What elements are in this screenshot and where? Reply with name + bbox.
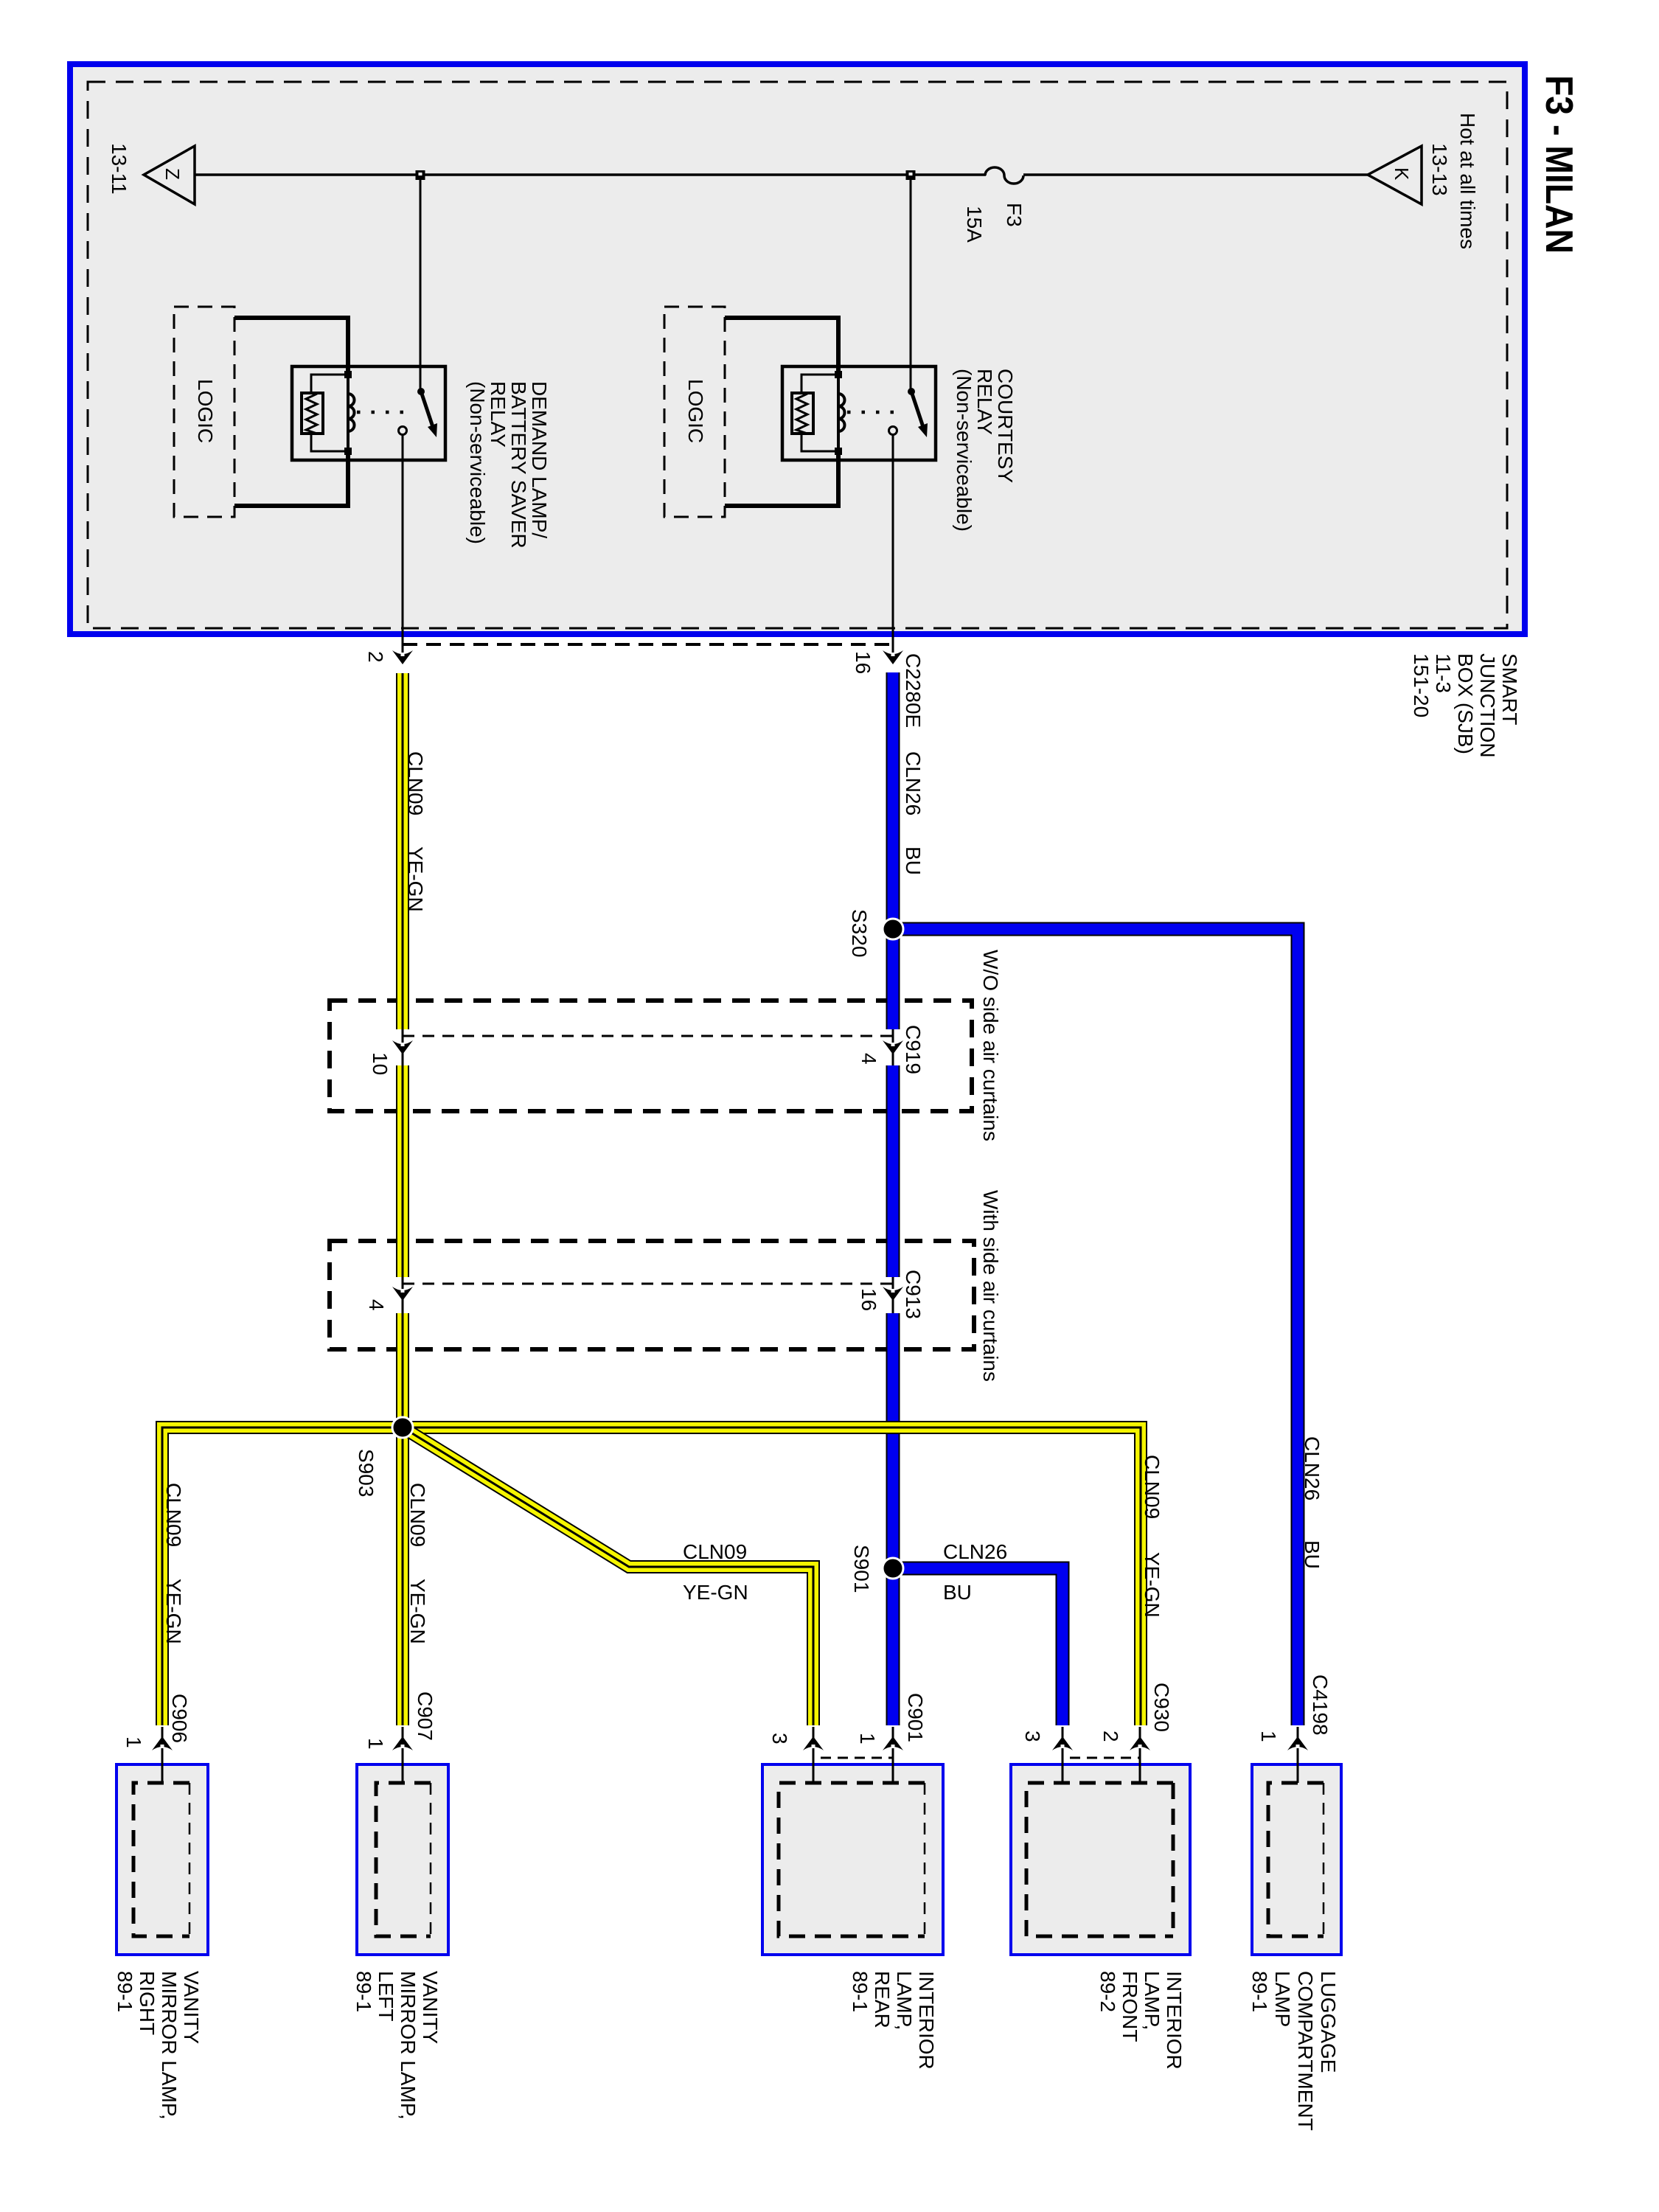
svg-text:151-20: 151-20 <box>1410 653 1433 717</box>
svg-text:1: 1 <box>364 1738 387 1750</box>
svg-text:CLN09: CLN09 <box>683 1540 747 1563</box>
svg-text:LOGIC: LOGIC <box>194 379 217 443</box>
svg-text:F3 - MILAN: F3 - MILAN <box>1537 75 1580 254</box>
svg-text:1: 1 <box>1257 1731 1280 1742</box>
svg-text:RELAY: RELAY <box>487 381 509 448</box>
svg-text:FRONT: FRONT <box>1119 1971 1141 2042</box>
svg-text:10: 10 <box>369 1052 392 1075</box>
svg-text:11-3: 11-3 <box>1432 653 1455 693</box>
svg-text:LOGIC: LOGIC <box>684 379 707 443</box>
svg-text:C919: C919 <box>902 1025 925 1074</box>
svg-text:C4198: C4198 <box>1309 1674 1332 1736</box>
svg-text:(Non-serviceable): (Non-serviceable) <box>953 369 975 532</box>
svg-text:3: 3 <box>1021 1731 1044 1742</box>
svg-text:LEFT: LEFT <box>375 1971 397 2021</box>
svg-text:16: 16 <box>852 651 874 674</box>
svg-text:VANITY: VANITY <box>419 1971 442 2044</box>
svg-text:4: 4 <box>858 1053 880 1065</box>
svg-text:4: 4 <box>365 1299 388 1311</box>
svg-text:C906: C906 <box>168 1694 191 1743</box>
svg-text:YE-GN: YE-GN <box>406 1579 429 1644</box>
svg-text:13-13: 13-13 <box>1428 143 1451 196</box>
svg-text:C930: C930 <box>1150 1683 1173 1732</box>
svg-text:SMART: SMART <box>1498 653 1521 726</box>
svg-text:REAR: REAR <box>871 1971 894 2028</box>
svg-text:(Non-serviceable): (Non-serviceable) <box>466 381 489 544</box>
svg-text:F3: F3 <box>1003 203 1026 227</box>
svg-text:BOX (SJB): BOX (SJB) <box>1454 653 1477 754</box>
svg-text:C907: C907 <box>414 1691 437 1741</box>
svg-text:BU: BU <box>902 846 925 875</box>
svg-text:13-11: 13-11 <box>108 143 131 195</box>
svg-text:89-1: 89-1 <box>1248 1971 1271 2012</box>
svg-text:BATTERY SAVER: BATTERY SAVER <box>507 381 530 549</box>
svg-text:RELAY: RELAY <box>973 369 996 435</box>
svg-text:YE-GN: YE-GN <box>1141 1552 1164 1618</box>
svg-text:LAMP: LAMP <box>1271 1971 1294 2027</box>
svg-text:COURTESY: COURTESY <box>994 369 1017 483</box>
svg-text:BU: BU <box>943 1581 972 1604</box>
svg-text:Z: Z <box>161 168 184 180</box>
svg-text:CLN26: CLN26 <box>943 1540 1007 1563</box>
svg-text:YE-GN: YE-GN <box>162 1579 185 1644</box>
svg-text:Hot at all times: Hot at all times <box>1456 113 1479 249</box>
svg-text:BU: BU <box>1301 1540 1324 1569</box>
svg-text:C901: C901 <box>904 1693 927 1742</box>
svg-text:2: 2 <box>1099 1731 1122 1742</box>
svg-text:89-1: 89-1 <box>114 1971 136 2012</box>
svg-text:S320: S320 <box>848 909 871 957</box>
svg-text:89-1: 89-1 <box>849 1971 872 2012</box>
svg-text:RIGHT: RIGHT <box>136 1971 159 2035</box>
svg-text:15A: 15A <box>963 206 986 243</box>
svg-text:JUNCTION: JUNCTION <box>1476 653 1499 758</box>
svg-text:VANITY: VANITY <box>180 1971 203 2044</box>
svg-text:INTERIOR: INTERIOR <box>915 1971 938 2070</box>
svg-text:CLN09: CLN09 <box>406 1483 429 1547</box>
svg-text:INTERIOR: INTERIOR <box>1163 1971 1186 2070</box>
svg-text:DEMAND LAMP/: DEMAND LAMP/ <box>528 381 551 538</box>
svg-text:CLN09: CLN09 <box>162 1483 185 1547</box>
svg-text:MIRROR LAMP,: MIRROR LAMP, <box>158 1971 181 2120</box>
svg-text:CLN09: CLN09 <box>1141 1455 1164 1519</box>
svg-text:1: 1 <box>856 1733 879 1745</box>
svg-text:MIRROR LAMP,: MIRROR LAMP, <box>397 1971 420 2120</box>
svg-text:K: K <box>1391 167 1413 181</box>
svg-text:89-1: 89-1 <box>352 1971 375 2012</box>
svg-text:LAMP,: LAMP, <box>893 1971 916 2030</box>
svg-text:S901: S901 <box>850 1545 873 1593</box>
svg-text:YE-GN: YE-GN <box>683 1581 748 1604</box>
svg-text:CLN26: CLN26 <box>902 751 925 815</box>
svg-text:89-2: 89-2 <box>1096 1971 1119 2012</box>
svg-text:C2280E: C2280E <box>902 653 925 728</box>
svg-text:CLN09: CLN09 <box>404 751 427 815</box>
svg-text:2: 2 <box>364 651 387 663</box>
svg-text:C913: C913 <box>902 1270 925 1319</box>
svg-text:COMPARTMENT: COMPARTMENT <box>1294 1971 1317 2131</box>
svg-text:3: 3 <box>768 1733 791 1745</box>
svg-text:LAMP,: LAMP, <box>1141 1971 1164 2030</box>
svg-text:1: 1 <box>122 1736 145 1748</box>
svg-text:CLN26: CLN26 <box>1301 1436 1324 1500</box>
svg-text:With side air curtains: With side air curtains <box>979 1190 1002 1382</box>
svg-text:W/O side air curtains: W/O side air curtains <box>979 950 1002 1141</box>
svg-text:S903: S903 <box>355 1449 378 1497</box>
svg-text:LUGGAGE: LUGGAGE <box>1317 1971 1340 2073</box>
svg-text:YE-GN: YE-GN <box>404 846 427 912</box>
svg-text:16: 16 <box>858 1288 880 1311</box>
